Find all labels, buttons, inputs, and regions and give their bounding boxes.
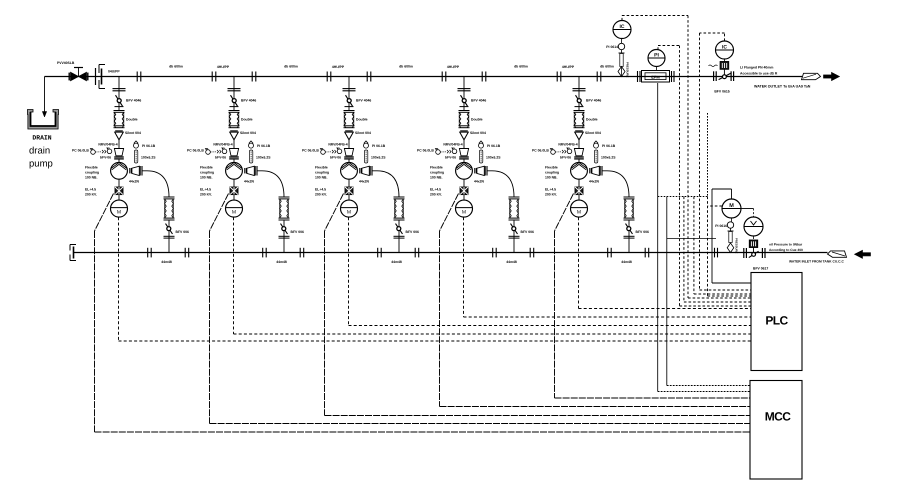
wire: drain branch drop bbox=[44, 77, 46, 117]
svg-text:PRESSURE: PRESSURE bbox=[626, 62, 630, 78]
svg-text:WATER INLET FROM TANK CU.C.C: WATER INLET FROM TANK CU.C.C bbox=[789, 260, 844, 264]
instrument LV bubble bbox=[744, 217, 763, 236]
solid link y238.5 bbox=[667, 238, 716, 240]
gauge capsule bottom bbox=[730, 228, 732, 231]
pump unit 3 (pump P3, motor M3, valves, couplings) bbox=[302, 77, 419, 265]
pipe: top discharge header bbox=[45, 76, 803, 78]
signal IC valve loop bbox=[724, 33, 726, 41]
power trunk x657.7 from EFM to MCC bbox=[657, 83, 659, 392]
svg-text:4HU/PP: 4HU/PP bbox=[217, 65, 230, 69]
instrument PI on flow meter bbox=[648, 50, 665, 67]
instrument M bubble bbox=[722, 199, 741, 218]
inlet arrow bbox=[855, 250, 871, 258]
flange pair right of tee 5 bbox=[596, 72, 598, 82]
signal trunk x679.5 to PLC bbox=[679, 46, 681, 307]
pipe: bottom suction header bbox=[74, 252, 828, 254]
gauge tag capsule bbox=[621, 50, 623, 53]
svg-text:WATER OUTLET To BrA UA9 TaN: WATER OUTLET To BrA UA9 TaN bbox=[754, 85, 811, 89]
svg-text:4HU/PP: 4HU/PP bbox=[447, 65, 460, 69]
svg-text:db 600m: db 600m bbox=[600, 65, 614, 69]
signal trunk x707.5 to PLC bbox=[707, 113, 709, 197]
svg-text:db 600m: db 600m bbox=[284, 65, 298, 69]
arrow into drain pit bbox=[42, 112, 46, 118]
signal PI-EFM loop bbox=[657, 46, 659, 50]
outlet arrow bbox=[824, 72, 840, 80]
instrument PI 0616 bubble bbox=[731, 218, 733, 222]
svg-text:MCC: MCC bbox=[765, 410, 791, 424]
drain pit (hatched) bbox=[27, 110, 58, 130]
instrument PI 0614 bubble bbox=[618, 43, 624, 49]
instrument FIC 0614 bbox=[613, 21, 631, 39]
valve actuator box bbox=[753, 236, 755, 239]
signal line motor M4 to PLC (dashed) bbox=[463, 217, 465, 317]
flange pair on bottom header right bbox=[714, 248, 716, 258]
MCC box bbox=[750, 381, 802, 480]
svg-text:According to Cue 400: According to Cue 400 bbox=[769, 248, 803, 252]
pump unit 1 (pump P1, motor M1, valves, couplings) bbox=[72, 77, 189, 265]
signal line motor M2 to PLC (dashed) bbox=[233, 217, 235, 334]
svg-text:LI Flanged PN 40mm: LI Flanged PN 40mm bbox=[740, 66, 773, 70]
svg-text:PLC: PLC bbox=[765, 314, 788, 328]
power line unit 3 to MCC bbox=[325, 194, 344, 232]
signal trunk x683.9 to PLC bbox=[683, 197, 685, 303]
signal line motor M1 to PLC (dashed) bbox=[118, 217, 120, 341]
svg-text:04U/PP: 04U/PP bbox=[108, 70, 120, 74]
signal trunk x693.9 to PLC bbox=[693, 197, 695, 295]
flange pair right of tee 2 bbox=[251, 72, 253, 82]
instrument IC above control valve bbox=[716, 41, 734, 59]
power line unit 4 to MCC bbox=[440, 194, 459, 232]
svg-text:PI 0614: PI 0614 bbox=[606, 45, 618, 49]
svg-text:PVV40SLB: PVV40SLB bbox=[57, 61, 75, 65]
svg-text:Accessible to use dS R: Accessible to use dS R bbox=[740, 72, 778, 76]
pump unit 4 (pump P4, motor M4, valves, couplings) bbox=[417, 77, 534, 265]
pump unit 5 (pump P5, motor M5, valves, couplings) bbox=[532, 77, 649, 265]
inlet flag bbox=[828, 251, 847, 257]
svg-text:drain: drain bbox=[29, 146, 50, 157]
svg-text:4HU/PP: 4HU/PP bbox=[562, 65, 575, 69]
svg-text:M: M bbox=[729, 203, 734, 209]
power line unit 2 to MCC bbox=[210, 194, 229, 232]
PLC box bbox=[751, 273, 802, 371]
flange pair right of tee 1 bbox=[136, 72, 138, 82]
outlet flag bbox=[802, 73, 821, 79]
svg-text:pump: pump bbox=[29, 159, 53, 170]
svg-text:IC: IC bbox=[722, 45, 727, 51]
svg-text:DRAIN: DRAIN bbox=[32, 134, 51, 141]
svg-text:4HU/PP: 4HU/PP bbox=[332, 65, 345, 69]
svg-text:PRESSURE: PRESSURE bbox=[735, 238, 739, 254]
flange pair left of tee 3 bbox=[326, 72, 328, 82]
end cap bottom header bbox=[70, 245, 76, 261]
loop from bottom header to instrument bbox=[711, 189, 713, 253]
signal M to valve positioner bbox=[741, 208, 754, 210]
flange pair right of tee 4 bbox=[481, 72, 483, 82]
power line unit 5 to MCC bbox=[555, 194, 574, 232]
svg-text:BFV 0615: BFV 0615 bbox=[714, 90, 729, 94]
signal trunk x688 to PLC bbox=[687, 16, 689, 299]
svg-text:EFM: EFM bbox=[651, 75, 660, 80]
signal FIC loop up-over bbox=[621, 16, 623, 21]
signal from instrument loop to x707.5 bbox=[708, 205, 723, 207]
flange pair left of tee 2 bbox=[211, 72, 213, 82]
power trunk x666.8 to MCC bbox=[666, 197, 668, 386]
signal line motor M3 to PLC (dashed) bbox=[348, 217, 350, 325]
flow meter EFM with flanges bbox=[637, 71, 639, 82]
signal FIC to PI bbox=[621, 39, 623, 44]
flange pair left of tee 5 bbox=[556, 72, 558, 82]
control valve BFV 0615 with actuator bbox=[713, 71, 715, 81]
blind flange / spool piece bbox=[95, 68, 97, 85]
flange pair right of tee 3 bbox=[366, 72, 368, 82]
svg-text:db 600m: db 600m bbox=[169, 65, 183, 69]
pump unit 2 (pump P2, motor M2, valves, couplings) bbox=[187, 77, 304, 265]
svg-text:db 600m: db 600m bbox=[399, 65, 413, 69]
gate valve PVV40SLB on header bbox=[71, 72, 79, 81]
inlet control valve on bottom header bbox=[743, 248, 745, 258]
flange pair left of tee 4 bbox=[441, 72, 443, 82]
line x712 into PLC bbox=[711, 253, 713, 284]
svg-text:BFV 0617: BFV 0617 bbox=[753, 267, 768, 271]
signal line motor M5 to PLC (dashed) bbox=[578, 217, 580, 308]
power line unit 1 to MCC bbox=[95, 194, 114, 232]
svg-text:db 600m: db 600m bbox=[514, 65, 528, 69]
signal trunk x699.5 to PLC bbox=[699, 33, 701, 290]
signal header dotted y196.5 bbox=[658, 196, 708, 198]
svg-text:oil Pressure to 0Nbar: oil Pressure to 0Nbar bbox=[769, 243, 803, 247]
svg-text:PI: PI bbox=[654, 53, 659, 59]
svg-text:IC: IC bbox=[620, 24, 625, 30]
diamond on bottom header bbox=[727, 243, 734, 253]
sample diamond on header bbox=[618, 67, 625, 77]
svg-text:PI 0616: PI 0616 bbox=[715, 224, 727, 228]
